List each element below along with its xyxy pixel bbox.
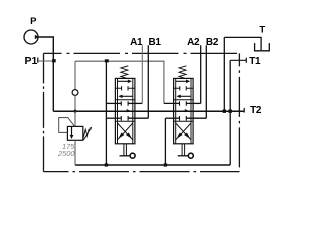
wire pump to bypass rail: [38, 37, 53, 111]
pilot wire (grey) left leg: [74, 61, 76, 89]
wire relief top: [74, 111, 76, 126]
valve V1: [115, 66, 135, 158]
pump arrow: [35, 35, 39, 40]
relief valve internal arrow: [71, 127, 73, 135]
rail A-level valve 1 left: [106, 102, 121, 104]
tank rail left vertical: [105, 61, 107, 165]
rail A-level valve 2 right: [187, 102, 201, 104]
wire B2: [205, 45, 207, 118]
valve V2: [174, 66, 194, 158]
pump P: [24, 30, 38, 44]
P bypass rail: [53, 110, 244, 112]
relief adjust arrow: [83, 129, 90, 140]
node tank rail bottom: [105, 163, 108, 166]
enclosure border bottom edge: [44, 171, 240, 173]
T2 port tick: [243, 108, 245, 113]
bottom tank line: [75, 164, 230, 166]
rail B-level valve 1 left: [106, 117, 121, 119]
node T drop on rail: [223, 110, 226, 113]
T1 port tick: [245, 58, 247, 63]
wire P1 to pump line: [38, 60, 53, 62]
wire A2: [200, 45, 202, 103]
svg-text:B2: B2: [206, 37, 219, 48]
node drain junction: [164, 163, 167, 166]
rail B-level valve 2 right: [187, 117, 207, 119]
rail B-level valve 2 left: [165, 117, 179, 119]
wire circle to bypass rail: [74, 95, 76, 111]
relief pilot line: [59, 118, 75, 133]
wire T drop: [223, 37, 225, 111]
svg-text:2500: 2500: [57, 149, 75, 158]
rail A-level valve 1 right: [128, 102, 142, 104]
svg-text:P: P: [30, 16, 37, 27]
rail A-level valve 2 left: [164, 102, 180, 104]
node P1 junction: [52, 59, 56, 62]
pilot wire (grey) across and down to valve 2: [75, 61, 164, 103]
svg-text:T1: T1: [249, 56, 261, 67]
tank symbol: [255, 43, 270, 51]
svg-text:B1: B1: [149, 37, 162, 48]
wire valve2 drain to tank line: [164, 118, 166, 165]
wire T1: [230, 59, 246, 61]
rail B-level valve 1 right: [128, 117, 148, 119]
relief spring: [83, 129, 89, 138]
wire T1 drop to tank line: [229, 60, 231, 165]
enclosure border right edge: [238, 53, 240, 171]
wire relief to bottom tank line: [74, 140, 76, 165]
svg-text:T: T: [259, 24, 265, 35]
node T1 drop on rail: [229, 110, 232, 113]
wire to tank T: [224, 37, 261, 50]
enclosure border left edge: [43, 53, 45, 171]
wire A1: [141, 45, 143, 103]
wire B1: [147, 45, 149, 118]
P1 port tick: [37, 58, 39, 63]
enclosure border top edge: [44, 52, 240, 54]
svg-text:T2: T2: [250, 105, 262, 116]
svg-text:P1: P1: [25, 55, 38, 67]
gauge circle: [72, 90, 78, 96]
relief valve RV: [67, 126, 82, 140]
node grey wire / tank rail junction: [105, 59, 109, 62]
svg-text:A1: A1: [130, 37, 143, 48]
node relief tap: [73, 109, 78, 113]
svg-text:A2: A2: [187, 37, 200, 48]
